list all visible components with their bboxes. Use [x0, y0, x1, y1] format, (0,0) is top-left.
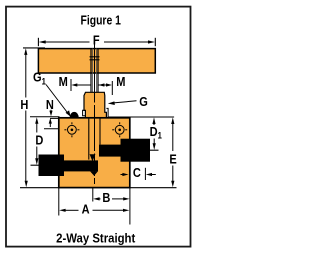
svg-text:H: H	[20, 97, 28, 112]
N up arrow	[49, 122, 51, 127]
D dimension line	[36, 122, 38, 133]
shoulder extension line left	[30, 116, 60, 118]
dimension F ticks	[38, 38, 155, 46]
svg-text:A: A	[82, 202, 90, 217]
G1 leader	[46, 85, 69, 115]
dimension F arrowheads	[39, 40, 46, 43]
frame border	[6, 7, 191, 247]
svg-text:D1: D1	[150, 124, 163, 141]
dimension M line	[77, 84, 111, 86]
svg-text:Figure 1: Figure 1	[80, 13, 121, 27]
mounting hole right	[112, 122, 127, 137]
C right tick	[144, 168, 146, 180]
bonnet left mounting lip	[83, 110, 86, 116]
G leader	[114, 101, 137, 103]
svg-text:M: M	[59, 74, 68, 89]
body top extension left	[50, 117, 59, 119]
valve body	[59, 118, 130, 188]
bonnet right mounting lip	[106, 108, 108, 117]
svg-text:2-Way Straight: 2-Way Straight	[56, 231, 135, 246]
svg-text:F: F	[93, 33, 100, 48]
left port neck	[61, 160, 98, 171]
svg-text:G: G	[139, 94, 148, 109]
svg-text:E: E	[169, 152, 176, 167]
A/B right extension line	[129, 188, 131, 225]
left port nut	[39, 155, 65, 177]
B center extension line	[92, 188, 94, 202]
H top extension line	[23, 47, 45, 49]
N down arrow	[50, 110, 52, 111]
stem thread marks	[90, 57, 100, 60]
D1 up arrow	[153, 123, 155, 126]
D1 bottom extension line	[150, 149, 159, 151]
handle bar	[38, 49, 155, 73]
B dimension line	[99, 198, 101, 200]
C left arrow	[121, 174, 124, 176]
stem centerline	[94, 44, 96, 185]
H bottom extension line	[20, 187, 59, 189]
shoulder extension line right	[108, 116, 174, 118]
svg-text:C: C	[133, 165, 141, 180]
svg-text:M: M	[116, 74, 125, 89]
panel nut dome	[70, 112, 79, 118]
D1 down arrow	[153, 139, 155, 144]
C right arrow	[151, 174, 156, 176]
dimension M arrowheads	[71, 83, 77, 86]
svg-text:B: B	[102, 190, 110, 205]
D bottom extension line	[31, 164, 44, 166]
dimension F line	[44, 41, 150, 43]
A dimension line	[65, 209, 79, 211]
svg-text:N: N	[46, 97, 54, 112]
H dimension line	[25, 54, 27, 98]
stem tip	[90, 154, 96, 161]
svg-text:D: D	[35, 132, 43, 147]
E dimension line	[172, 122, 174, 152]
hole centerline extension left	[44, 128, 61, 130]
E bottom extension line	[131, 187, 177, 189]
mounting hole left	[64, 122, 79, 137]
A left extension line	[58, 188, 60, 216]
dimension M ticks	[71, 79, 112, 95]
bonnet	[84, 92, 106, 118]
stem outlines	[91, 49, 98, 93]
right port nut	[121, 139, 151, 162]
right port neck	[99, 145, 121, 157]
stem passage lines	[88, 118, 90, 160]
